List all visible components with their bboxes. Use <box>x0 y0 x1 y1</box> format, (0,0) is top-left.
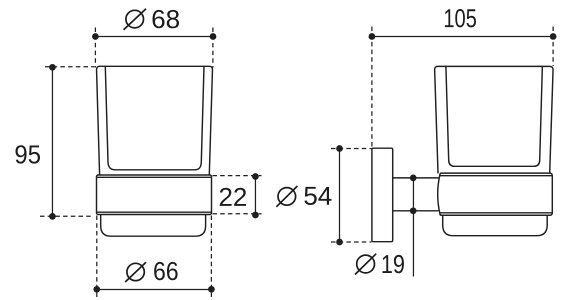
dimension line 95 <box>51 67 53 216</box>
extension line 22 top <box>213 175 262 177</box>
holder ring band (side) <box>438 173 553 215</box>
extension line 22 bottom <box>213 213 262 215</box>
dimension line Ø68 <box>95 35 213 37</box>
extension line 105 left <box>371 27 373 148</box>
label 19 <box>382 255 403 273</box>
label 105 <box>445 9 476 27</box>
cup inner wall (side) <box>446 67 542 167</box>
cup bottom (side) <box>443 215 548 235</box>
glass inner wall <box>105 66 204 169</box>
band inner bottom line <box>98 211 211 213</box>
extension line Ø66 right <box>210 216 212 298</box>
dot 22 top <box>252 173 259 180</box>
extension line left of Ø68 <box>94 28 96 68</box>
glass outer wall <box>97 66 213 174</box>
label 54 <box>304 187 331 205</box>
wall plate (side) <box>372 148 393 242</box>
dot Ø54 top <box>336 145 343 152</box>
leader line Ø19 <box>412 178 414 277</box>
extension line Ø54 top <box>331 148 371 150</box>
dot 105 right <box>550 33 557 40</box>
dimension line Ø54 <box>339 149 341 243</box>
dimension line Ø66 <box>97 288 212 290</box>
dimension line 105 <box>372 35 553 37</box>
label 22 <box>220 188 246 206</box>
junction dot arm top <box>410 175 417 182</box>
holder ring band (front) <box>97 175 212 215</box>
dot Ø66 right <box>208 286 215 293</box>
dot 95 bottom <box>49 213 56 220</box>
arm bottom line <box>393 210 438 212</box>
extension line Ø66 left <box>96 216 98 298</box>
dimension line 22 <box>254 177 256 216</box>
label Ø68 diameter symbol <box>124 9 146 30</box>
arm top line <box>393 177 438 179</box>
extension line 95 bottom <box>40 215 94 217</box>
label Ø66 diameter symbol <box>125 262 146 282</box>
dot Ø66 left <box>93 286 100 293</box>
dot 105 left <box>369 33 376 40</box>
band inner bottom line (side) <box>441 212 552 214</box>
extension line right of Ø68 <box>212 28 214 68</box>
extension line 105 right <box>552 27 554 66</box>
dot Ø68 right <box>210 33 217 40</box>
dot Ø54 bottom <box>336 239 343 246</box>
label Ø19 diameter symbol <box>355 254 376 275</box>
dot 22 bottom <box>252 212 259 219</box>
band inner top line (side) <box>441 175 552 177</box>
label Ø54 diameter symbol <box>276 186 297 207</box>
label 95 <box>16 145 41 163</box>
extension line 95 top <box>45 66 95 68</box>
extension line Ø54 bottom <box>331 241 371 243</box>
junction dot arm bottom <box>410 207 417 214</box>
label 66 <box>154 262 177 280</box>
label 68 <box>153 10 180 28</box>
dot Ø68 left <box>92 33 99 40</box>
glass bottom (front) <box>101 215 206 237</box>
dot 95 top <box>49 64 56 71</box>
cup outer wall (side) <box>435 66 553 172</box>
band inner top line <box>98 176 211 178</box>
